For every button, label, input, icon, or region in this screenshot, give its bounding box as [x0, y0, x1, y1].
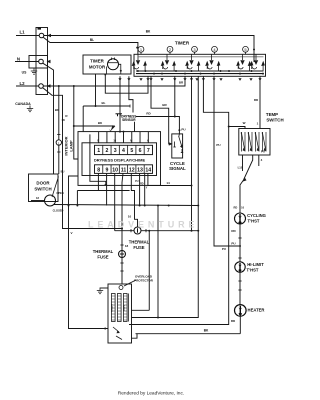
- tick chain c: [238, 280, 241, 282]
- junction DS x139: [139, 205, 141, 207]
- display divider bottom 14: [143, 165, 145, 174]
- svg-text:PU: PU: [181, 128, 185, 132]
- wire sensor feed from timer: [129, 76, 133, 112]
- svg-text:TIMER: TIMER: [90, 59, 104, 64]
- tick fuse2 a: [120, 244, 123, 246]
- svg-text:RD: RD: [254, 98, 259, 102]
- svg-text:11: 11: [121, 167, 127, 173]
- wire neutral to motor: [69, 206, 109, 329]
- wire motor right lead: [119, 64, 121, 74]
- timer pin stub 2: [169, 52, 171, 54]
- junction motor left: [104, 328, 106, 330]
- tick lamp top: [57, 134, 60, 136]
- timer terminal circle 5: [243, 46, 249, 52]
- svg-text:BR: BR: [179, 81, 184, 85]
- arrow L1 plug: [47, 34, 51, 37]
- display divider bottom 11: [118, 165, 120, 174]
- wire motor left lead: [105, 67, 107, 74]
- dryness sensor electrodes: [116, 114, 123, 117]
- arrow timer exit x197: [195, 78, 198, 81]
- junction timer bus x263: [262, 73, 264, 75]
- svg-text:10: 10: [128, 215, 132, 219]
- cycle signal blade: [179, 136, 182, 147]
- timer internal bus upper: [136, 70, 264, 72]
- wire display top stub 1: [98, 132, 100, 143]
- wire BK to sensor: [74, 125, 115, 127]
- svg-text:R: R: [65, 114, 68, 118]
- junction DS x68: [68, 205, 70, 207]
- svg-text:L1: L1: [19, 30, 25, 35]
- junction fuse2 tap: [121, 228, 123, 230]
- svg-text:SIGNAL: SIGNAL: [169, 166, 186, 171]
- wire pin8 down: [97, 173, 99, 190]
- svg-text:FUSE: FUSE: [97, 254, 108, 259]
- junction DS x144: [144, 205, 146, 207]
- wire L1 main BK run: [44, 36, 254, 63]
- tick fuse2 b: [120, 262, 123, 264]
- display divider top 6: [135, 145, 137, 154]
- arrow timer exit x128.9: [127, 78, 130, 81]
- arrow timer exit x191.5: [190, 78, 193, 81]
- junction motor pin a on BL: [95, 105, 97, 107]
- terminal N: [39, 59, 44, 64]
- wire display internal loop: [90, 134, 106, 184]
- wire pin13 down: [139, 173, 141, 205]
- cycle signal left pin: [174, 142, 176, 148]
- timer contact 3: [185, 54, 200, 71]
- svg-text:PROTECTOR: PROTECTOR: [134, 278, 154, 282]
- wire L1 switched to timer 1: [43, 37, 138, 54]
- temp switch contact arrows: [241, 132, 266, 151]
- display divider bottom 13: [135, 165, 137, 174]
- svg-text:L2: L2: [19, 81, 25, 86]
- terminal L2: [39, 84, 44, 89]
- wire overload arrow: [124, 280, 136, 286]
- display divider top 2: [102, 145, 104, 154]
- arrow timer exit x203.4: [202, 78, 205, 81]
- wire temp sw out blade: [240, 155, 253, 213]
- svg-text:LAMP: LAMP: [69, 140, 74, 152]
- svg-text:N: N: [17, 57, 20, 62]
- junction timer bus x162: [161, 73, 163, 75]
- arrow timer exit x185: [183, 78, 186, 81]
- display outer box: [78, 132, 161, 186]
- motor overload protector symbol: [119, 286, 123, 290]
- motor box: [108, 284, 132, 343]
- svg-text:1: 1: [257, 122, 259, 126]
- thermal fuse F2: [119, 251, 126, 258]
- junction timer bus x185: [184, 73, 186, 75]
- display divider bottom 10: [110, 165, 112, 174]
- junction chain x214: [239, 245, 241, 247]
- svg-text:CANADA: CANADA: [15, 102, 31, 106]
- svg-text:18: 18: [36, 196, 39, 200]
- svg-text:6: 6: [139, 148, 142, 154]
- arrow timer exit x221: [219, 78, 222, 81]
- arrow L2 plug: [47, 84, 51, 87]
- timer contact 5b: [250, 54, 265, 71]
- timer contact 1: [132, 54, 147, 71]
- svg-text:HEATER: HEATER: [248, 308, 265, 313]
- wire L2 main run: [43, 76, 185, 86]
- junction DS x77: [76, 205, 78, 207]
- svg-text:RD: RD: [146, 112, 151, 116]
- timer internal bus lower: [136, 73, 264, 75]
- door switch S1: [45, 195, 56, 206]
- svg-text:V: V: [70, 231, 72, 235]
- heater R1: [235, 305, 247, 317]
- timer contact 2: [161, 54, 176, 71]
- arrow temp blade: [243, 177, 247, 182]
- junction L2 disp tap: [73, 85, 75, 87]
- svg-text:8: 8: [97, 167, 100, 173]
- svg-text:BU: BU: [61, 170, 65, 174]
- cycle signal left pin arrow: [169, 142, 173, 145]
- wire H1 to DS: [76, 191, 78, 206]
- svg-text:10: 10: [241, 206, 244, 210]
- wire sensor down to box: [134, 122, 136, 132]
- wire display top stub 3: [114, 132, 116, 143]
- wire heater to bus: [239, 316, 241, 334]
- junction cycle top: [178, 129, 180, 131]
- svg-text:4: 4: [122, 148, 125, 154]
- hi-limit thermostat: [235, 262, 245, 272]
- svg-text:CYCLING: CYCLING: [247, 213, 266, 218]
- wire L1 lead-in: [16, 35, 39, 37]
- temp switch contacts: [241, 132, 266, 152]
- junction timer bus x145.4: [144, 70, 146, 72]
- wire BL run: [82, 106, 84, 132]
- wire timer drop x203 to temp switch: [203, 76, 245, 128]
- svg-text:TEMP: TEMP: [266, 112, 278, 117]
- svg-text:SWITCH: SWITCH: [34, 187, 51, 192]
- terminal L1: [39, 33, 44, 38]
- motor centrifugal switch: [113, 327, 122, 340]
- wire timer to pin bus BK: [119, 76, 121, 131]
- svg-text:TIMER: TIMER: [175, 41, 190, 46]
- wire display top stub 5: [131, 132, 133, 143]
- timer pin stub 3: [194, 52, 196, 54]
- junction pin14 x191: [191, 185, 193, 187]
- timer terminal circle 3: [192, 46, 198, 52]
- wire temp sw stub L10: [242, 155, 244, 171]
- arrow timer exit x162: [160, 78, 163, 81]
- svg-text:DRYNESS DISPLAY/CHIME: DRYNESS DISPLAY/CHIME: [94, 157, 146, 162]
- tick loop end: [105, 184, 107, 186]
- wire N to door switch: [43, 63, 54, 174]
- door switch box: [29, 174, 59, 202]
- svg-text:THERMAL: THERMAL: [93, 249, 114, 254]
- svg-text:SWITCH: SWITCH: [266, 118, 283, 123]
- wire fuse tap to motor: [148, 231, 150, 311]
- junction timer bus x251.5: [251, 70, 253, 72]
- svg-text:BL: BL: [102, 101, 106, 105]
- wire display top stub 4: [122, 132, 124, 143]
- wire x229 to motor: [129, 127, 229, 325]
- svg-text:BK: BK: [98, 121, 103, 125]
- motor ground lead: [100, 287, 108, 289]
- svg-text:FUSE: FUSE: [133, 245, 144, 250]
- wire timer drop x260 RD to temp switch: [259, 76, 261, 128]
- temp switch box: [239, 129, 270, 156]
- svg-text:THERMAL: THERMAL: [129, 240, 150, 245]
- timer terminal circle 4: [212, 46, 218, 52]
- svg-text:MAIN: MAIN: [123, 305, 126, 311]
- svg-text:2: 2: [105, 148, 108, 154]
- wire door switch out neutral: [54, 205, 198, 206]
- svg-text:L10: L10: [238, 166, 243, 170]
- svg-text:OPEN: OPEN: [56, 191, 63, 195]
- ground US: [31, 68, 37, 74]
- svg-text:BL: BL: [90, 38, 94, 42]
- motor windings: [112, 294, 129, 322]
- wire temp sw stub 4: [258, 155, 260, 166]
- svg-text:PU: PU: [261, 150, 265, 154]
- svg-text:RD: RD: [140, 183, 144, 186]
- tick chain a: [238, 237, 241, 239]
- arrow timer exit x141: [139, 78, 142, 81]
- junction timer bus x137.9: [137, 70, 139, 72]
- svg-text:1: 1: [97, 148, 100, 154]
- display inner box: [82, 143, 157, 176]
- display divider top 7: [143, 145, 145, 154]
- junction timer bus x229: [228, 70, 230, 72]
- wire x158 DS to motor y317: [157, 206, 159, 318]
- wire timer drop x198 main: [132, 76, 199, 317]
- svg-text:RD: RD: [231, 319, 236, 323]
- timer inner top line: [139, 56, 264, 58]
- wire display top stub 2: [106, 132, 108, 143]
- terminal block N housing: [29, 56, 48, 69]
- junction timer bus x200.5: [200, 73, 202, 75]
- thermal fuse F1: [134, 227, 141, 234]
- svg-text:18: 18: [61, 118, 65, 122]
- svg-text:DOOR: DOOR: [36, 181, 50, 186]
- wire pin9 down: [106, 173, 108, 205]
- svg-text:5: 5: [130, 148, 133, 154]
- junction motor pin b: [104, 74, 106, 76]
- timer pin stub 5: [245, 52, 247, 54]
- svg-text:12: 12: [129, 167, 135, 173]
- tick lamp bottom: [57, 151, 60, 153]
- svg-text:T'HST: T'HST: [248, 219, 260, 224]
- wire below-box H1: [77, 190, 129, 192]
- wire motor bottom jog: [132, 334, 138, 338]
- interior lamp DS1: [56, 140, 61, 145]
- display divider top 4: [118, 145, 120, 154]
- timer pin stub 4: [214, 52, 216, 54]
- timer pin stub 1: [140, 52, 142, 54]
- junction BK left: [73, 125, 75, 127]
- junction fuse line x149: [148, 230, 150, 232]
- display top pin row: [95, 145, 153, 154]
- display divider bottom 12: [127, 165, 129, 174]
- svg-text:HI-LIMIT: HI-LIMIT: [247, 262, 264, 267]
- svg-text:9: 9: [105, 167, 108, 173]
- cycle signal box: [172, 134, 183, 158]
- svg-text:T'HST: T'HST: [247, 268, 259, 273]
- wire timer motor pin b: [105, 74, 148, 93]
- svg-text:PU: PU: [231, 242, 235, 246]
- terminal block top mark: [38, 27, 42, 30]
- wire display left feed: [74, 86, 78, 159]
- junction sensor RD x174: [174, 116, 176, 118]
- wire pinY down: [144, 173, 146, 205]
- wire timer drop x191: [191, 76, 193, 230]
- svg-text:PU: PU: [222, 247, 226, 251]
- timer terminal circle 2: [167, 46, 173, 52]
- svg-text:BK: BK: [204, 328, 209, 332]
- svg-text:MOTOR: MOTOR: [89, 65, 106, 70]
- svg-text:10: 10: [112, 167, 118, 173]
- junction L2 lamp tap: [58, 85, 60, 87]
- display divider bottom 9: [102, 165, 104, 174]
- wire L2 lead-in: [16, 85, 39, 87]
- wire hilimit to heater: [239, 272, 241, 305]
- svg-text:CLOSED: CLOSED: [53, 209, 64, 213]
- svg-text:LEADVENTURE: LEADVENTURE: [88, 220, 198, 230]
- arrow timer exit x151: [149, 78, 152, 81]
- wire timer drop x174 PU: [174, 76, 176, 116]
- svg-text:US: US: [22, 71, 27, 75]
- display bottom pin row: [95, 165, 153, 174]
- tick chain b: [238, 257, 241, 259]
- junction x198 fuse: [197, 230, 199, 232]
- wire door switch in: [31, 200, 45, 202]
- arrow timer exit x214: [212, 78, 215, 81]
- wire N lead-in: [15, 61, 39, 63]
- svg-text:18: 18: [125, 244, 129, 248]
- wire timer motor pin a: [95, 74, 97, 106]
- wire L2 switched drop: [43, 88, 122, 229]
- arrow timer exit x174.8: [173, 78, 176, 81]
- svg-text:PU: PU: [135, 180, 139, 183]
- svg-text:3: 3: [114, 148, 117, 154]
- tick chain d: [238, 289, 241, 291]
- arrow timer exit x260: [258, 78, 261, 81]
- arrow timer exit x251: [249, 78, 252, 81]
- junction x191 fuse line: [191, 230, 193, 232]
- cycle signal bottom pin tick: [181, 149, 183, 153]
- svg-text:14: 14: [145, 167, 151, 173]
- wire pin14 route: [148, 173, 192, 185]
- door switch blade: [52, 177, 59, 198]
- wire motor bottom bk: [136, 333, 241, 335]
- wire display left out: [69, 176, 79, 206]
- display divider top 5: [127, 145, 129, 154]
- wire lamp to door switch: [58, 145, 60, 174]
- arrow BK sensor: [111, 125, 116, 131]
- arrow timer exit x148: [146, 78, 149, 81]
- timer box: [134, 54, 266, 76]
- junction x198 DS: [197, 205, 199, 207]
- junction node timer1 top: [136, 47, 138, 49]
- svg-text:RD: RD: [234, 206, 238, 210]
- wire timer drop x214 PU: [214, 76, 239, 246]
- display divider top 3: [110, 145, 112, 154]
- junction pin bus x120: [119, 131, 121, 133]
- terminal block TB1: [36, 28, 48, 95]
- svg-text:BR: BR: [162, 103, 167, 107]
- wire cycling to hilimit: [239, 224, 241, 262]
- timer contact 4: [205, 54, 220, 71]
- junction timer bus x154: [153, 73, 155, 75]
- wire fuse1 run right: [141, 230, 199, 232]
- timer motor box: [83, 55, 131, 74]
- arrow timer exit x240: [238, 78, 241, 81]
- svg-text:V: V: [109, 129, 111, 133]
- svg-text:PU: PU: [216, 143, 220, 147]
- svg-text:7: 7: [147, 148, 150, 154]
- ground motor: [97, 288, 103, 294]
- junction y317 x158: [157, 317, 159, 319]
- svg-text:RD: RD: [231, 229, 236, 233]
- wire pin12 to fuse1 top: [131, 173, 137, 227]
- wire motor right y310: [132, 309, 150, 311]
- wire timer drop BR to cycle signal: [151, 76, 172, 144]
- junction pin bus x123: [122, 131, 124, 133]
- svg-text:4: 4: [261, 158, 263, 162]
- junction timer bus x191.5: [191, 70, 193, 72]
- timer contact 5: [236, 54, 251, 71]
- svg-text:Rendered by LeadVenture, Inc.: Rendered by LeadVenture, Inc.: [118, 391, 184, 397]
- junction motor right lead: [120, 70, 122, 72]
- junction timer bus x220.5: [220, 70, 222, 72]
- svg-text:START: START: [111, 304, 114, 312]
- timer motor M1 symbol: [108, 59, 119, 70]
- svg-text:BK: BK: [146, 30, 151, 34]
- junction L1 at timer 5: [253, 49, 255, 51]
- svg-text:SENSOR: SENSOR: [122, 118, 136, 122]
- wire fuse1 run: [115, 230, 134, 232]
- svg-text:W: W: [243, 121, 246, 125]
- wire BL horizontal: [83, 105, 130, 107]
- junction DS x168: [168, 205, 170, 207]
- wire pin11 fuse2 chain: [122, 173, 123, 284]
- svg-text:L: L: [58, 141, 60, 145]
- junction DS x158: [157, 205, 159, 207]
- timer terminal circle 1: [138, 46, 144, 52]
- junction timer bus x240: [239, 73, 241, 75]
- junction timer bus x214: [213, 73, 215, 75]
- arrow N plug: [47, 60, 51, 63]
- ground CANADA: [27, 106, 33, 112]
- wire display top stub 7: [147, 132, 149, 143]
- junction timer bus x176: [175, 70, 177, 72]
- arrow timer exit x120: [118, 78, 121, 81]
- wire sensor RD to cycle signal: [136, 117, 180, 134]
- junction temp route x228: [228, 126, 230, 128]
- svg-text:14: 14: [166, 181, 170, 185]
- tick fuse2 c: [120, 270, 123, 272]
- svg-text:Y: Y: [146, 186, 148, 189]
- cycle signal arrow: [180, 145, 183, 149]
- tick BL end: [129, 105, 131, 108]
- cycling thermostat: [235, 213, 246, 224]
- wire lamp feed: [58, 86, 60, 140]
- wire display top stub 6: [139, 132, 141, 143]
- svg-text:13: 13: [137, 167, 143, 173]
- wire pin10 to fuse1: [114, 173, 116, 230]
